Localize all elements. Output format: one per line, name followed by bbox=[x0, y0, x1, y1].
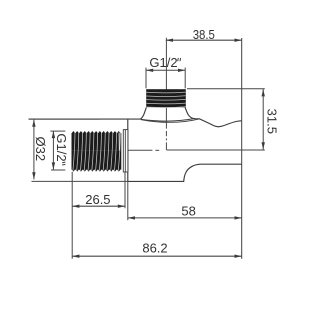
dimension 58 bbox=[128, 204, 242, 220]
svg-text:86.2: 86.2 bbox=[142, 240, 167, 255]
dimension G1/2 top bbox=[146, 55, 185, 89]
neck collar double arc under top thread bbox=[140, 118, 199, 122]
left thread G1/2 block bbox=[72, 131, 122, 172]
dimension O32 left bbox=[29, 119, 128, 181]
valve body outline bbox=[29, 108, 242, 182]
svg-text:G1/2: G1/2 bbox=[149, 55, 177, 70]
svg-text:58: 58 bbox=[181, 204, 195, 219]
dimension 38.5 top bbox=[166, 27, 242, 42]
extension line below body left edge bbox=[127, 181, 129, 220]
dimension 26.5 bbox=[72, 192, 125, 208]
dimension 31.5 right bbox=[167, 89, 280, 150]
top thread G1/2 block bbox=[146, 89, 186, 107]
dimension G1/2 left bbox=[50, 131, 69, 170]
svg-text:G1/2: G1/2 bbox=[54, 133, 69, 161]
vertical centerline of top thread bbox=[165, 38, 167, 150]
svg-text:26.5: 26.5 bbox=[85, 192, 110, 207]
collar ring between left thread and body bbox=[123, 130, 128, 209]
extension line left for 26.5 and 86.2 bbox=[71, 172, 73, 259]
dimension 86.2 bbox=[72, 240, 242, 258]
svg-text:31.5: 31.5 bbox=[264, 109, 279, 134]
svg-text:38.5: 38.5 bbox=[193, 27, 215, 42]
extension line right edge for 38.5, body right edge, 58/86.2 right bbox=[241, 38, 243, 259]
svg-text:Ø32: Ø32 bbox=[33, 137, 48, 162]
horizontal centerline of left pipe axis bbox=[123, 149, 159, 151]
